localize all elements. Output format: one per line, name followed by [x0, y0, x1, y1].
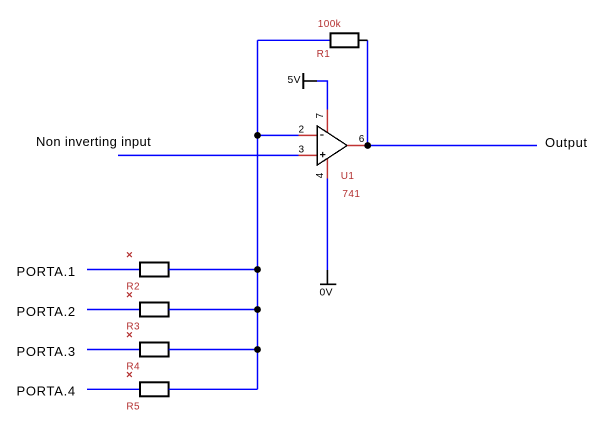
op-amp U1 pin 7 stub — [326, 110, 328, 133]
ground symbol 0V — [320, 270, 336, 284]
wire pin 4 to ground — [326, 179, 328, 271]
svg-text:R2: R2 — [126, 282, 140, 293]
wire R4 to summing bus — [169, 349, 258, 351]
wire feedback top horizontal to R1 left — [258, 39, 332, 41]
no-value mark x for R2 — [127, 252, 132, 257]
no-value mark x for R5 — [127, 372, 132, 377]
svg-text:PORTA.2: PORTA.2 — [17, 304, 76, 319]
wire 5V to op-amp pin 7 — [317, 81, 327, 110]
wire PORTA.4 to R5 — [87, 388, 140, 390]
svg-text:100k: 100k — [318, 19, 342, 30]
wire PORTA.3 to R4 — [87, 349, 140, 351]
svg-text:PORTA.3: PORTA.3 — [17, 344, 76, 359]
wire R2 to summing bus — [169, 269, 258, 271]
svg-text:4: 4 — [315, 172, 326, 178]
op-amp U1 pin 6 stub — [347, 145, 367, 147]
svg-text:R3: R3 — [126, 322, 140, 333]
op-amp U1 pin 4 stub — [326, 158, 328, 179]
svg-text:U1: U1 — [341, 171, 355, 182]
svg-text:PORTA.4: PORTA.4 — [17, 384, 76, 399]
junction dot at output node — [364, 142, 371, 149]
svg-text:0V: 0V — [320, 288, 333, 299]
junction dot R2 row — [254, 266, 261, 273]
junction dot at inverting input node — [254, 132, 261, 139]
resistor R3 — [140, 303, 169, 317]
wire output — [368, 145, 538, 147]
wire R5 to summing bus corner — [169, 388, 258, 390]
svg-text:R4: R4 — [126, 362, 140, 373]
wire pin 2 from summing bus — [258, 134, 299, 136]
wire feedback left vertical (node: inverting summing bus) — [257, 40, 259, 389]
op-amp U1 pin 3 stub — [299, 154, 318, 156]
junction dot R4 row — [254, 346, 261, 353]
wire non-inverting input to pin 3 — [118, 154, 299, 156]
resistor R5 — [140, 382, 169, 396]
svg-text:3: 3 — [299, 144, 305, 155]
wire right vertical from R1 to output node — [367, 40, 369, 145]
svg-text:R1: R1 — [317, 49, 331, 60]
op-amp U1 body — [317, 126, 347, 165]
svg-text:R5: R5 — [126, 401, 140, 412]
junction dot R3 row — [254, 306, 261, 313]
no-value mark x for R3 — [127, 292, 132, 297]
no-value mark x for R4 — [127, 332, 132, 337]
wire R3 to summing bus — [169, 309, 258, 311]
resistor R1 — [331, 33, 368, 47]
svg-text:PORTA.1: PORTA.1 — [17, 264, 76, 279]
wire PORTA.2 to R3 — [87, 309, 140, 311]
op-amp U1 pin 2 stub — [299, 134, 318, 136]
resistor R4 — [140, 343, 169, 357]
svg-text:5V: 5V — [288, 75, 301, 86]
svg-text:7: 7 — [315, 113, 326, 119]
svg-text:741: 741 — [342, 189, 360, 200]
svg-text:Output: Output — [545, 135, 588, 150]
svg-text:Non inverting input: Non inverting input — [36, 134, 151, 149]
wire PORTA.1 to R2 — [87, 269, 140, 271]
svg-text:2: 2 — [299, 125, 305, 136]
svg-text:6: 6 — [359, 134, 365, 145]
resistor R2 — [140, 263, 169, 277]
power symbol 5V — [303, 73, 317, 89]
